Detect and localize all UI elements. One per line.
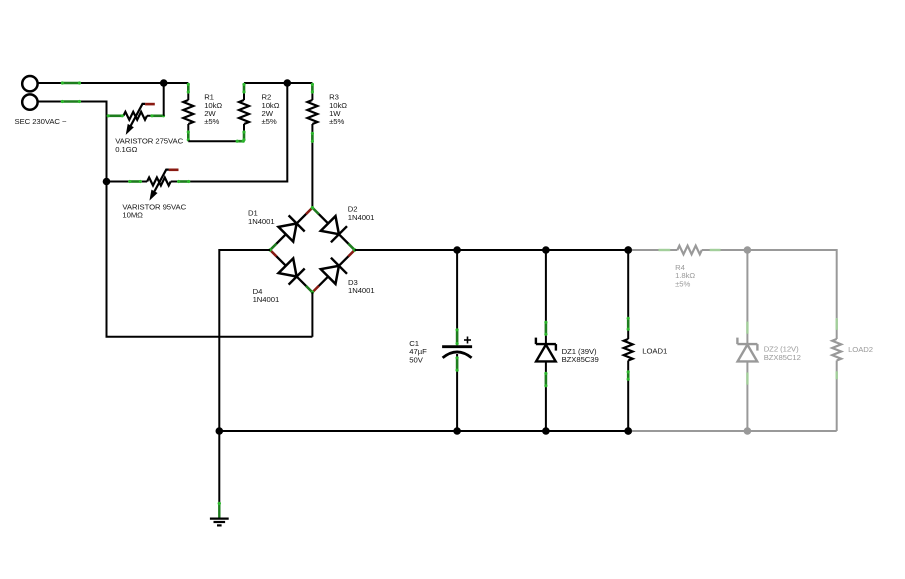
wire DC+ rail inactive to LOAD2 xyxy=(747,250,836,318)
wire term1 to node J1 xyxy=(38,82,164,84)
wire term2 down left side xyxy=(38,102,313,337)
node LOAD1 top (redraw) xyxy=(624,246,632,254)
diode D1 1N4001 xyxy=(279,224,297,242)
resistor R2 xyxy=(243,124,245,141)
node bridge bottom (AC2) xyxy=(306,286,312,292)
svg-text:0.1GΩ: 0.1GΩ xyxy=(115,145,137,154)
varistor RV1 275VAC xyxy=(107,115,124,117)
resistor LOAD1 xyxy=(627,250,629,339)
resistor R1 xyxy=(164,82,189,84)
node LOAD1 bottom xyxy=(624,427,632,435)
svg-text:1N4001: 1N4001 xyxy=(248,217,275,226)
diode D3 1N4001 xyxy=(321,266,339,284)
terminal SEC pin 2 xyxy=(22,94,37,109)
node DZ1 bottom xyxy=(542,427,550,435)
wire varistor RV1 to node J1 xyxy=(163,83,165,116)
svg-text:1N4001: 1N4001 xyxy=(348,286,375,295)
wire bridge edges xyxy=(270,208,355,293)
svg-text:±5%: ±5% xyxy=(262,117,277,126)
capacitor C1 47uF 50V xyxy=(456,250,458,345)
node C1 top xyxy=(453,246,461,254)
node C1 bottom xyxy=(453,427,461,435)
svg-text:10MΩ: 10MΩ xyxy=(122,211,143,220)
diode D4 1N4001 xyxy=(279,258,297,276)
svg-text:1N4001: 1N4001 xyxy=(348,213,375,222)
wire J2 down to varistor 95 xyxy=(189,83,288,182)
varistor RV2 95VAC xyxy=(107,181,148,183)
wire bridge bottom to AC return xyxy=(311,292,313,337)
svg-text:±5%: ±5% xyxy=(675,279,690,288)
node ground junction xyxy=(216,427,224,435)
node bridge left (DC-) xyxy=(270,244,276,250)
node bridge right (DC+) xyxy=(348,244,354,250)
terminal SEC pin 1 xyxy=(22,76,37,91)
svg-text:±5%: ±5% xyxy=(329,117,344,126)
node J1 xyxy=(160,79,168,87)
node DZ1 top xyxy=(542,246,550,254)
svg-text:1N4001: 1N4001 xyxy=(253,295,280,304)
svg-text:BZX85C12: BZX85C12 xyxy=(764,353,801,362)
ground xyxy=(218,431,220,503)
resistor R3 xyxy=(287,82,312,84)
resistor LOAD2 (inactive) xyxy=(832,339,841,361)
resistor R4 1.8k (inactive) xyxy=(628,249,677,251)
svg-text:LOAD1: LOAD1 xyxy=(642,346,667,355)
node bridge top (AC1) xyxy=(306,208,312,214)
wire bottom rail inactive xyxy=(628,430,837,432)
node DZ2 top (inactive) xyxy=(744,246,752,254)
svg-text:LOAD2: LOAD2 xyxy=(848,345,873,354)
diode D2 1N4001 xyxy=(321,216,339,234)
svg-text:50V: 50V xyxy=(409,355,423,364)
node LOAD1 top xyxy=(624,246,632,254)
svg-text:BZX85C39: BZX85C39 xyxy=(562,355,599,364)
node DZ2 bottom (inactive) xyxy=(744,427,752,435)
svg-text:SEC 230VAC ~: SEC 230VAC ~ xyxy=(15,117,67,126)
node at varistor 95 tap xyxy=(103,178,111,186)
wire DC+ rail xyxy=(355,249,629,251)
zener DZ1 BZX85C39 xyxy=(545,250,547,344)
wire DC- bottom rail xyxy=(219,430,628,432)
node J2 xyxy=(284,79,292,87)
wire R1 bottom to R2 bottom xyxy=(188,140,244,142)
node LOAD1 bottom (redraw) xyxy=(624,427,632,435)
svg-text:±5%: ±5% xyxy=(204,117,219,126)
wire DC- left vertex down to ground node xyxy=(219,250,270,431)
zener DZ2 BZX85C12 (inactive) xyxy=(746,250,748,344)
